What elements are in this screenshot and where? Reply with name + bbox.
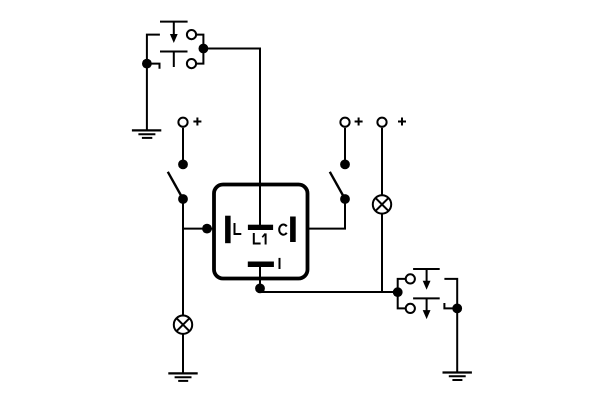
flasher relay U1 body	[214, 185, 308, 279]
push switch S4 actuator row 1 (bar with down arrow)	[413, 269, 440, 290]
pilot lamp H2	[373, 195, 391, 213]
plus label B2	[355, 118, 363, 126]
battery + terminal B2 (middle)	[340, 118, 349, 127]
relay U1 terminal bar L (left)	[225, 216, 231, 244]
wire: relay I to pilot circuit (bottom run)	[260, 291, 398, 293]
hazard switch S1 right junction dot	[199, 44, 209, 54]
wire: H2 down to bottom run	[381, 214, 383, 292]
plus label B3	[398, 118, 406, 126]
hazard switch S1 left bracket terminal	[147, 35, 160, 69]
push switch S4 right junction dot	[452, 304, 462, 314]
hazard switch S1 right bracket	[196, 35, 203, 64]
ground G2	[168, 373, 197, 381]
relay U1 terminal bar L1 (top centre)	[248, 225, 273, 230]
battery + terminal B1 (left)	[178, 118, 187, 127]
push switch S4 contact circle row 2	[406, 304, 415, 313]
push switch S4 right bracket terminal	[444, 279, 457, 309]
relay U1 terminal label L	[235, 223, 242, 234]
switch S2 upper contact dot	[178, 160, 188, 170]
wire: B1 to switch S2	[182, 128, 184, 165]
relay U1 terminal bar C (right)	[290, 217, 296, 243]
hazard switch S1 left junction dot	[142, 59, 152, 69]
switch S2 blade	[168, 172, 183, 199]
wire: branch to relay terminal L	[183, 228, 213, 230]
ground G3	[443, 373, 472, 381]
switch S3 upper contact dot	[340, 160, 350, 170]
switch S2 pivot dot	[178, 194, 188, 204]
hazard switch S1 contact circle row 1	[187, 30, 196, 39]
hazard switch S1 actuator row 1 (bar with down arrow)	[160, 22, 188, 43]
junction dot at relay terminal L	[202, 224, 212, 234]
wire: B3 to pilot lamp H2	[381, 128, 383, 195]
relay U1 terminal label C	[279, 225, 287, 235]
hazard switch S1 contact circle row 2	[187, 59, 196, 68]
lamp H1 (left indicator)	[174, 316, 192, 334]
push switch S4 actuator row 2 (bar with down arrow)	[413, 298, 440, 319]
wire: S1 to relay terminal L1 (top entry)	[203, 49, 260, 185]
switch S3 blade	[330, 172, 345, 199]
wire: S1 to ground G1	[146, 64, 148, 131]
push switch S4 contact circle row 1	[406, 274, 415, 283]
junction dot below relay at terminal I	[255, 284, 265, 294]
ground G1	[132, 130, 161, 138]
hazard switch S1 actuator row 2 (bar with plain stem)	[160, 52, 188, 68]
relay U1 terminal bar I (bottom)	[248, 262, 274, 268]
wire: S2 pivot down to lamp H1	[182, 199, 184, 316]
relay U1 terminal label I	[279, 258, 281, 269]
switch S3 pivot dot	[340, 194, 350, 204]
relay U1 internal lead L1	[259, 185, 261, 226]
battery + terminal B3 (right)	[377, 118, 386, 127]
wire: H1 to ground G2	[182, 334, 184, 374]
relay U1 terminal label L1	[254, 233, 266, 245]
wire: S4 to ground G3	[456, 308, 458, 372]
push switch S4 left bracket	[398, 279, 406, 309]
relay U1 internal lead I	[259, 267, 261, 292]
wire: relay C to switch S3	[308, 199, 346, 229]
push switch S4 left junction dot	[393, 287, 403, 297]
wire: S3 to battery + terminal B2	[344, 128, 346, 165]
plus label B1	[193, 118, 201, 126]
